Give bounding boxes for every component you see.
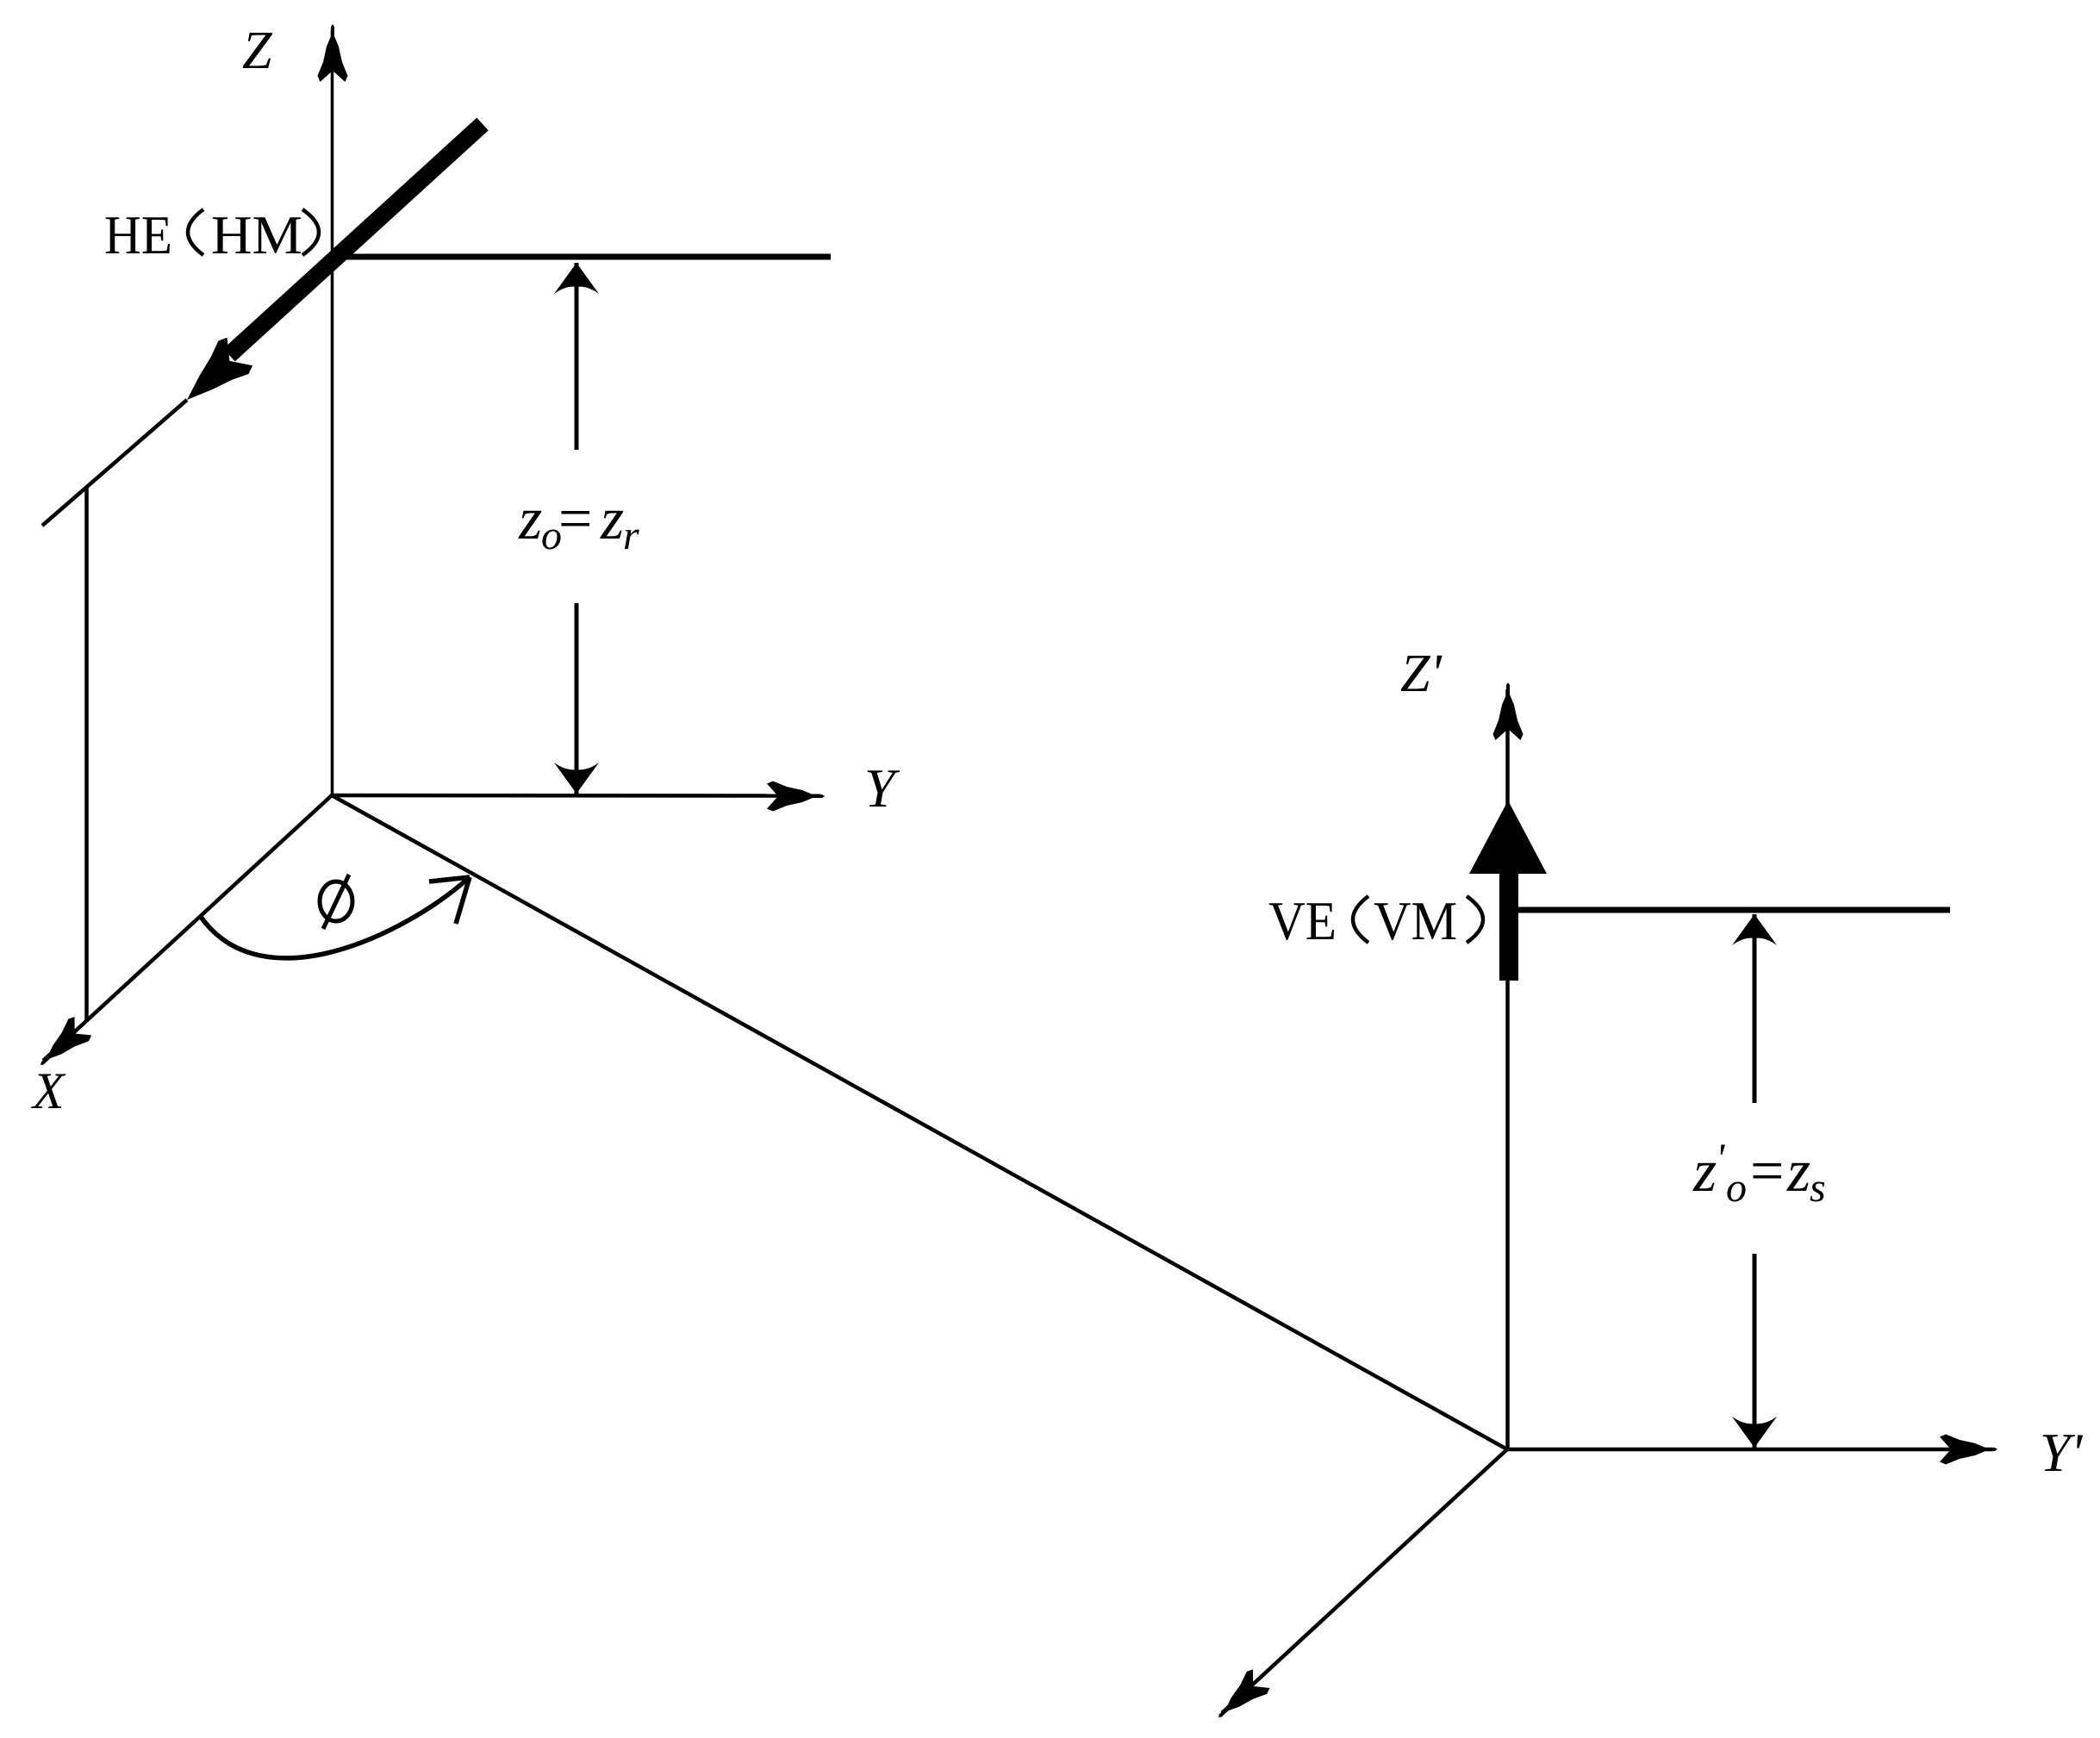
svg-text:r: r	[623, 513, 639, 558]
svg-text:z: z	[518, 486, 542, 552]
svg-text:=: =	[558, 486, 592, 552]
svg-text:': '	[1716, 1136, 1725, 1181]
svg-text:Z: Z	[242, 22, 272, 80]
svg-text:VE: VE	[1268, 890, 1337, 951]
svg-text:o: o	[1726, 1165, 1747, 1211]
svg-text:X: X	[31, 1062, 66, 1119]
svg-text:=: =	[1750, 1138, 1784, 1205]
svg-text:VM: VM	[1374, 890, 1457, 951]
svg-text:s: s	[1810, 1165, 1826, 1211]
svg-text:Y': Y'	[2040, 1422, 2084, 1483]
svg-text:HM: HM	[211, 204, 302, 265]
svg-text:z: z	[1692, 1138, 1717, 1205]
svg-text:z: z	[1786, 1138, 1810, 1205]
svg-text:z: z	[600, 486, 624, 552]
svg-text:Y: Y	[864, 757, 900, 819]
svg-text:HE: HE	[104, 204, 172, 265]
svg-text:Z': Z'	[1400, 645, 1443, 703]
